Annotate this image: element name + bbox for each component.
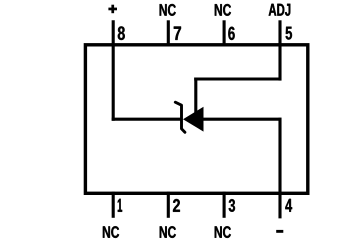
label NC (pin 7) [160, 4, 176, 16]
pin 6 lead [223, 20, 226, 46]
label NC (pin 1) [103, 226, 119, 238]
label ADJ (pin 5) [269, 4, 291, 16]
pin number 1 [118, 199, 122, 212]
pin 4 lead [278, 118, 281, 219]
label + (pin 8 polarity) [108, 5, 117, 14]
pin number 6 [228, 27, 234, 40]
pin 2 lead [167, 192, 170, 218]
pin number 3 [229, 199, 235, 212]
wire ADJ vertical drop to diode [194, 78, 197, 114]
pin number 2 [173, 199, 180, 212]
pin number 4 [285, 199, 292, 212]
label NC (pin 3) [215, 226, 231, 238]
IC body U1 [85, 45, 307, 194]
pin number 7 [174, 27, 181, 40]
wire ADJ horizontal: drop point to pin 5 [194, 77, 281, 80]
label NC (pin 2) [160, 226, 176, 238]
label - (pin 4 polarity) [276, 230, 283, 233]
pin 1 lead [112, 192, 115, 218]
pin 3 lead [223, 192, 226, 218]
pin 8 lead [112, 20, 115, 121]
pin number 8 [118, 26, 125, 40]
label NC (pin 6) [215, 4, 231, 16]
pin 5 lead [278, 20, 281, 80]
shunt reference diode D1 cathode bar with bent tails [175, 102, 185, 132]
shunt reference diode D1 anode triangle [183, 107, 204, 132]
pin 7 lead [167, 20, 170, 46]
wire cathode: pin 8 to diode bar [112, 118, 182, 121]
wire anode: diode triangle to pin 4 [203, 118, 282, 121]
pin number 5 [286, 27, 292, 40]
